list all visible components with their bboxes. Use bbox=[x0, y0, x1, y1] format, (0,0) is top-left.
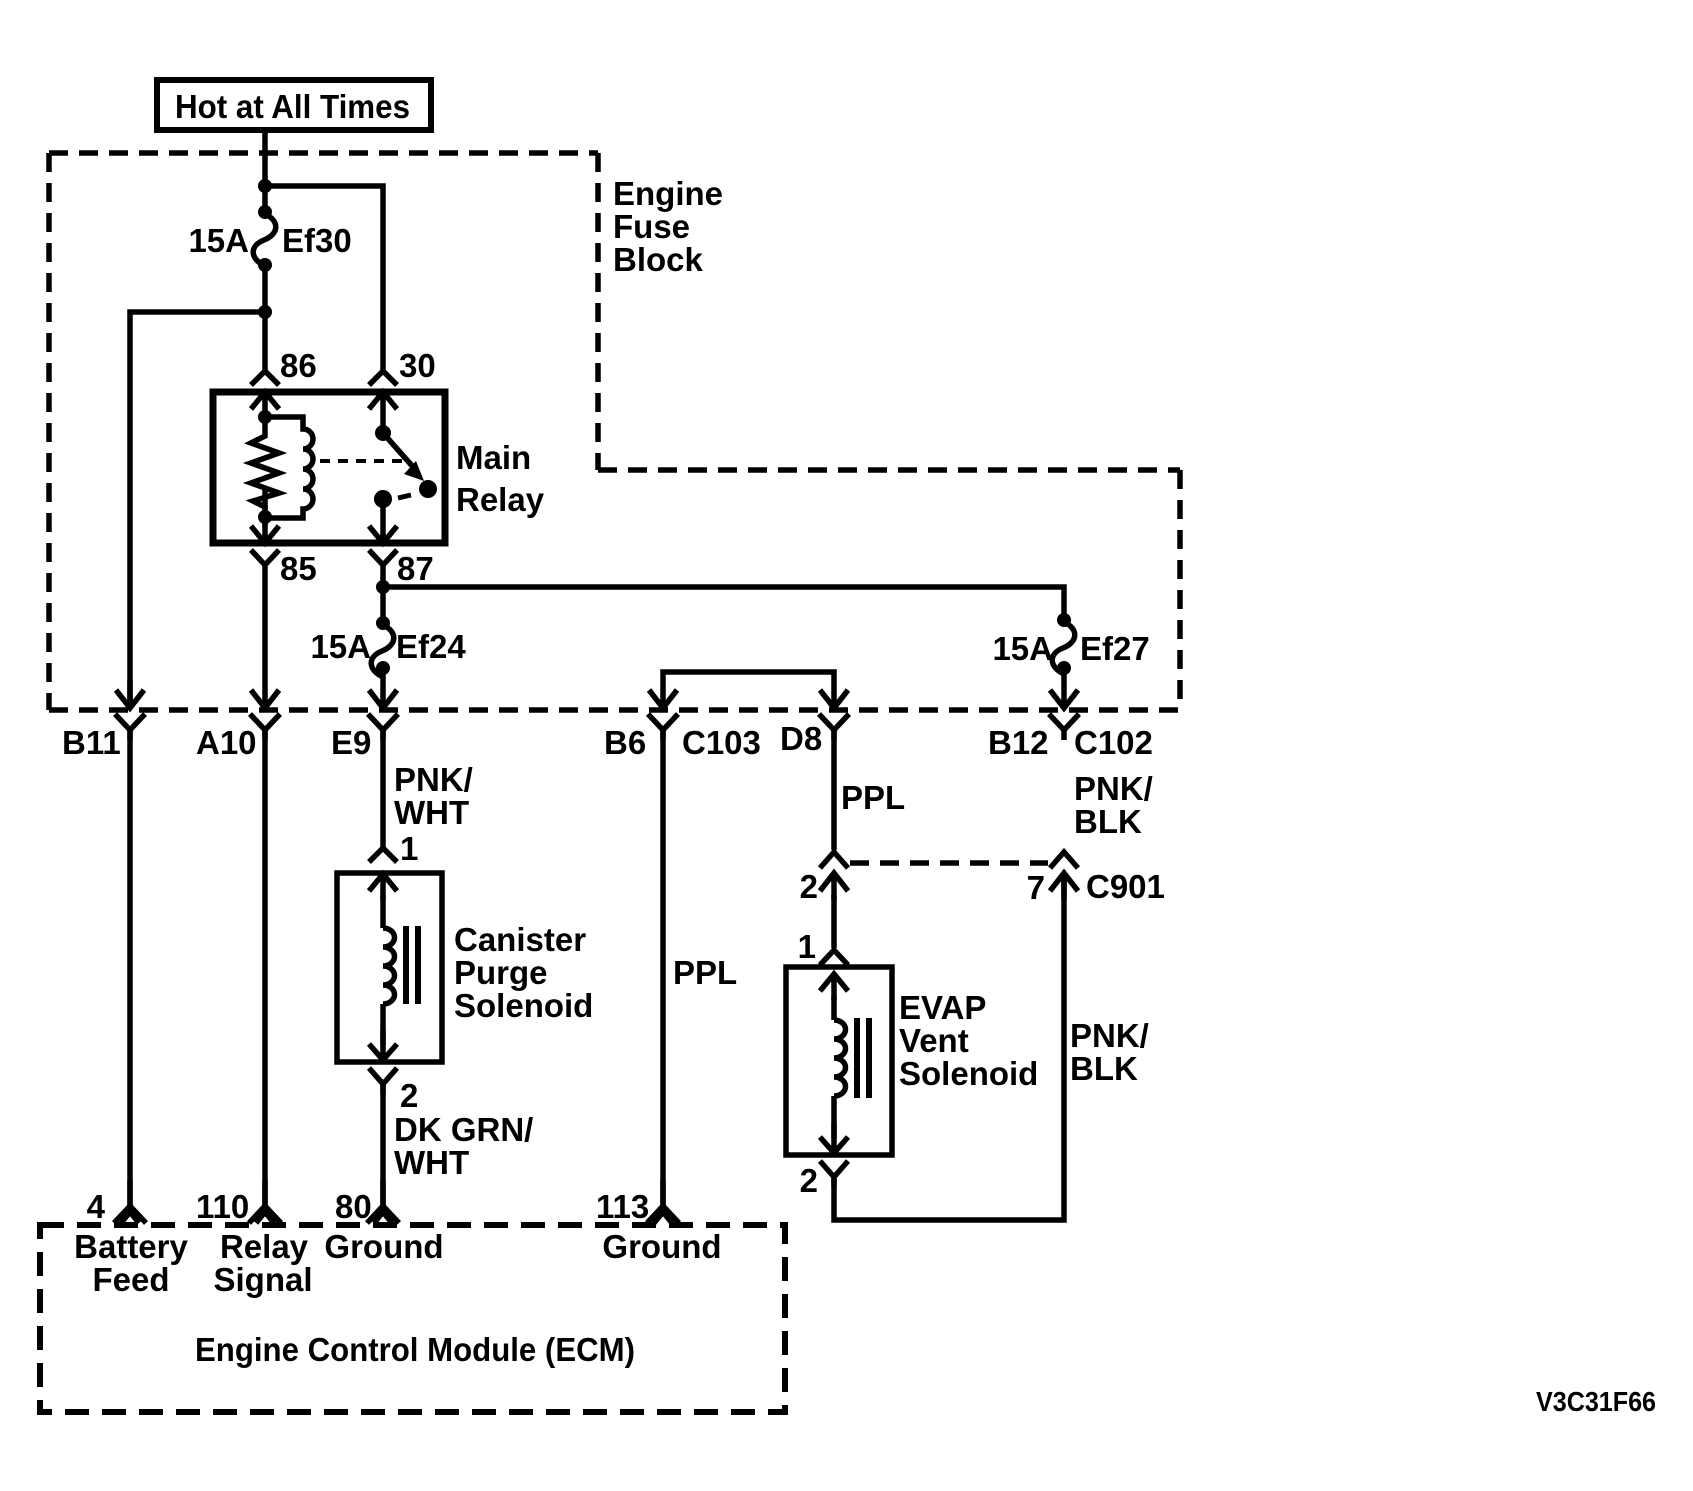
svg-text:WHT: WHT bbox=[394, 794, 469, 831]
wire 87 branch right to Ef27 bbox=[383, 587, 1064, 620]
Engine Fuse Block dashed outline bbox=[49, 153, 1180, 710]
wire coil to 85 bbox=[262, 517, 268, 542]
ECM pin 113 connector bbox=[647, 1180, 679, 1223]
EVAP solenoid internal wire and coil bbox=[834, 996, 846, 1138]
svg-text:Ground: Ground bbox=[602, 1228, 721, 1265]
svg-text:30: 30 bbox=[399, 347, 436, 384]
svg-text:80: 80 bbox=[335, 1188, 372, 1225]
Engine Fuse Block label bbox=[613, 175, 723, 278]
svg-text:C901: C901 bbox=[1086, 868, 1165, 905]
fuse Ef24 bbox=[376, 616, 390, 630]
wire Ef24 to E9 bbox=[380, 668, 386, 704]
svg-text:PNK/: PNK/ bbox=[1070, 1017, 1149, 1054]
svg-text:Solenoid: Solenoid bbox=[454, 987, 593, 1024]
svg-text:Relay: Relay bbox=[220, 1228, 309, 1265]
connector C901 dashed line bbox=[850, 860, 1048, 866]
svg-text:Solenoid: Solenoid bbox=[899, 1055, 1038, 1092]
svg-text:B6: B6 bbox=[604, 724, 646, 761]
svg-text:BLK: BLK bbox=[1070, 1050, 1138, 1087]
svg-text:PPL: PPL bbox=[841, 779, 905, 816]
canister purge solenoid box bbox=[337, 873, 442, 1062]
relay pin 85 connector bbox=[251, 490, 279, 565]
main relay U1 box bbox=[213, 392, 445, 543]
wire C901 to EVAP pin 1 bbox=[831, 895, 837, 948]
wire A10 to ECM 110 bbox=[262, 728, 268, 1206]
relay switch lower contact node bbox=[374, 490, 392, 508]
relay coil wire bottom node bbox=[258, 510, 272, 524]
purge solenoid core bars bbox=[406, 926, 418, 1004]
svg-text:85: 85 bbox=[280, 550, 317, 587]
wire label PNK/WHT bbox=[394, 761, 473, 831]
svg-text:BLK: BLK bbox=[1074, 803, 1142, 840]
fuse Ef30 bbox=[258, 205, 272, 219]
relay coil bbox=[265, 417, 313, 518]
svg-text:Feed: Feed bbox=[92, 1261, 169, 1298]
connector C901 pin 7 bbox=[1050, 852, 1078, 900]
purge solenoid bottom arrow bbox=[369, 1030, 397, 1060]
wire Ef27 to B12 bbox=[1061, 668, 1067, 704]
relay switch arm arrowhead bbox=[404, 461, 424, 481]
svg-text:Engine: Engine bbox=[613, 175, 723, 212]
relay pin 87 connector bbox=[369, 526, 397, 565]
wire D8 to C901 bbox=[831, 728, 837, 850]
svg-text:Canister: Canister bbox=[454, 921, 586, 958]
fuse Ef27 bbox=[1057, 613, 1071, 627]
svg-text:B12: B12 bbox=[988, 724, 1049, 761]
purge solenoid pin 2 connector bbox=[369, 1068, 397, 1094]
EVAP solenoid bottom arrow bbox=[820, 1123, 848, 1153]
svg-text:C102: C102 bbox=[1074, 724, 1153, 761]
svg-text:Signal: Signal bbox=[213, 1261, 312, 1298]
connector A10 bbox=[250, 690, 280, 740]
svg-text:Engine Control Module (ECM): Engine Control Module (ECM) bbox=[195, 1331, 635, 1368]
svg-text:15A: 15A bbox=[188, 222, 249, 259]
Main Relay label bbox=[456, 439, 545, 518]
wire loop B6 to D8 inside fuse block bbox=[663, 672, 834, 704]
svg-text:15A: 15A bbox=[992, 630, 1053, 667]
relay switch pivot node bbox=[375, 425, 391, 441]
EVAP vent solenoid box bbox=[786, 967, 892, 1155]
wire pin2 to ECM 80 bbox=[380, 1084, 386, 1206]
svg-text:PNK/: PNK/ bbox=[1074, 770, 1153, 807]
svg-text:Ef27: Ef27 bbox=[1080, 630, 1150, 667]
svg-text:PPL: PPL bbox=[673, 954, 737, 991]
svg-text:Fuse: Fuse bbox=[613, 208, 690, 245]
svg-text:Ef24: Ef24 bbox=[396, 628, 466, 665]
connector D8 bbox=[819, 690, 849, 740]
wire 87 down bbox=[380, 564, 386, 623]
svg-text:110: 110 bbox=[196, 1188, 249, 1225]
relay actuation dashed link bbox=[320, 459, 402, 463]
node junction to battery feed branch bbox=[258, 305, 272, 319]
purge solenoid pin 1 connector bbox=[369, 848, 397, 900]
svg-text:D8: D8 bbox=[780, 720, 822, 757]
svg-text:2: 2 bbox=[800, 868, 818, 905]
node 87 branch bbox=[376, 580, 390, 594]
svg-text:Ef30: Ef30 bbox=[282, 222, 352, 259]
wire B6 to ECM 113 bbox=[660, 728, 666, 1206]
svg-text:Block: Block bbox=[613, 241, 704, 278]
relay pin 86 connector bbox=[251, 371, 279, 420]
svg-text:EVAP: EVAP bbox=[899, 989, 986, 1026]
svg-text:WHT: WHT bbox=[394, 1144, 469, 1181]
svg-text:DK GRN/: DK GRN/ bbox=[394, 1111, 533, 1148]
svg-text:Ground: Ground bbox=[324, 1228, 443, 1265]
relay coil wire top node bbox=[258, 410, 272, 424]
ECM pin 80 connector bbox=[367, 1180, 399, 1223]
svg-text:15A: 15A bbox=[310, 628, 371, 665]
EVAP Vent Solenoid label bbox=[899, 989, 1038, 1092]
svg-text:113: 113 bbox=[596, 1188, 649, 1225]
EVAP solenoid core bars bbox=[857, 1018, 869, 1098]
svg-text:A10: A10 bbox=[196, 724, 257, 761]
svg-text:Vent: Vent bbox=[899, 1022, 969, 1059]
svg-text:86: 86 bbox=[280, 347, 317, 384]
connector B6 bbox=[648, 690, 678, 740]
svg-text:87: 87 bbox=[397, 550, 434, 587]
wire branch to 30 bbox=[265, 186, 383, 372]
connector pin labels row bbox=[62, 720, 1153, 761]
svg-text:V3C31F66: V3C31F66 bbox=[1536, 1386, 1656, 1417]
svg-text:2: 2 bbox=[400, 1077, 418, 1114]
svg-text:1: 1 bbox=[798, 928, 816, 965]
ECM pin number labels bbox=[87, 1188, 650, 1225]
ECM pin function labels bbox=[74, 1228, 721, 1298]
svg-text:Purge: Purge bbox=[454, 954, 548, 991]
Canister Purge Solenoid label bbox=[454, 921, 593, 1024]
node junction top bbox=[258, 179, 272, 193]
connector B11 bbox=[115, 680, 145, 740]
wire fuse to relay pin 86 bbox=[262, 265, 268, 372]
svg-text:Hot at All Times: Hot at All Times bbox=[175, 88, 410, 125]
svg-text:PNK/: PNK/ bbox=[394, 761, 473, 798]
svg-text:Relay: Relay bbox=[456, 481, 545, 518]
ECM pin 4 connector bbox=[114, 1180, 146, 1223]
wire label PNK/BLK right side bbox=[1070, 1017, 1149, 1087]
connector C901 pin 2 bbox=[820, 852, 848, 900]
wire label PNK/BLK on B12 wire bbox=[1074, 770, 1153, 840]
svg-text:E9: E9 bbox=[331, 724, 371, 761]
svg-text:B11: B11 bbox=[62, 724, 121, 761]
connector B12 C102 bbox=[1049, 690, 1079, 740]
relay switch gap dash bbox=[398, 495, 411, 498]
wire E9 to purge solenoid bbox=[380, 728, 386, 847]
wire EVAP pin 2 return loop bbox=[834, 873, 1064, 1220]
relay resistor bbox=[251, 417, 279, 517]
wire branch left to B11 bbox=[130, 312, 265, 705]
wire from Hot at All Times down bbox=[262, 130, 268, 212]
relay pin 30 connector bbox=[369, 371, 397, 428]
svg-text:C103: C103 bbox=[682, 724, 761, 761]
svg-text:1: 1 bbox=[400, 830, 418, 867]
svg-text:Battery: Battery bbox=[74, 1228, 188, 1265]
relay switch arm bbox=[383, 433, 414, 468]
ECM pin 110 connector bbox=[249, 1180, 281, 1223]
svg-text:2: 2 bbox=[800, 1162, 818, 1199]
svg-text:4: 4 bbox=[87, 1188, 106, 1225]
wire 85 to A10 bbox=[262, 564, 268, 706]
purge solenoid internal wire and coil bbox=[383, 895, 395, 1045]
relay switch contact node bbox=[419, 480, 437, 498]
ECM dashed box bbox=[40, 1225, 785, 1412]
EVAP vent solenoid pin 1 connector bbox=[820, 950, 848, 1000]
svg-text:7: 7 bbox=[1027, 869, 1045, 906]
connector E9 bbox=[368, 690, 398, 740]
wire switch to 87 bbox=[380, 499, 386, 542]
Hot at All Times box bbox=[157, 80, 431, 130]
svg-text:Main: Main bbox=[456, 439, 531, 476]
wire label DK GRN/WHT bbox=[394, 1111, 533, 1181]
wire B11 to ECM 4 bbox=[127, 728, 133, 1206]
EVAP pin 2 connector bbox=[820, 1161, 848, 1187]
